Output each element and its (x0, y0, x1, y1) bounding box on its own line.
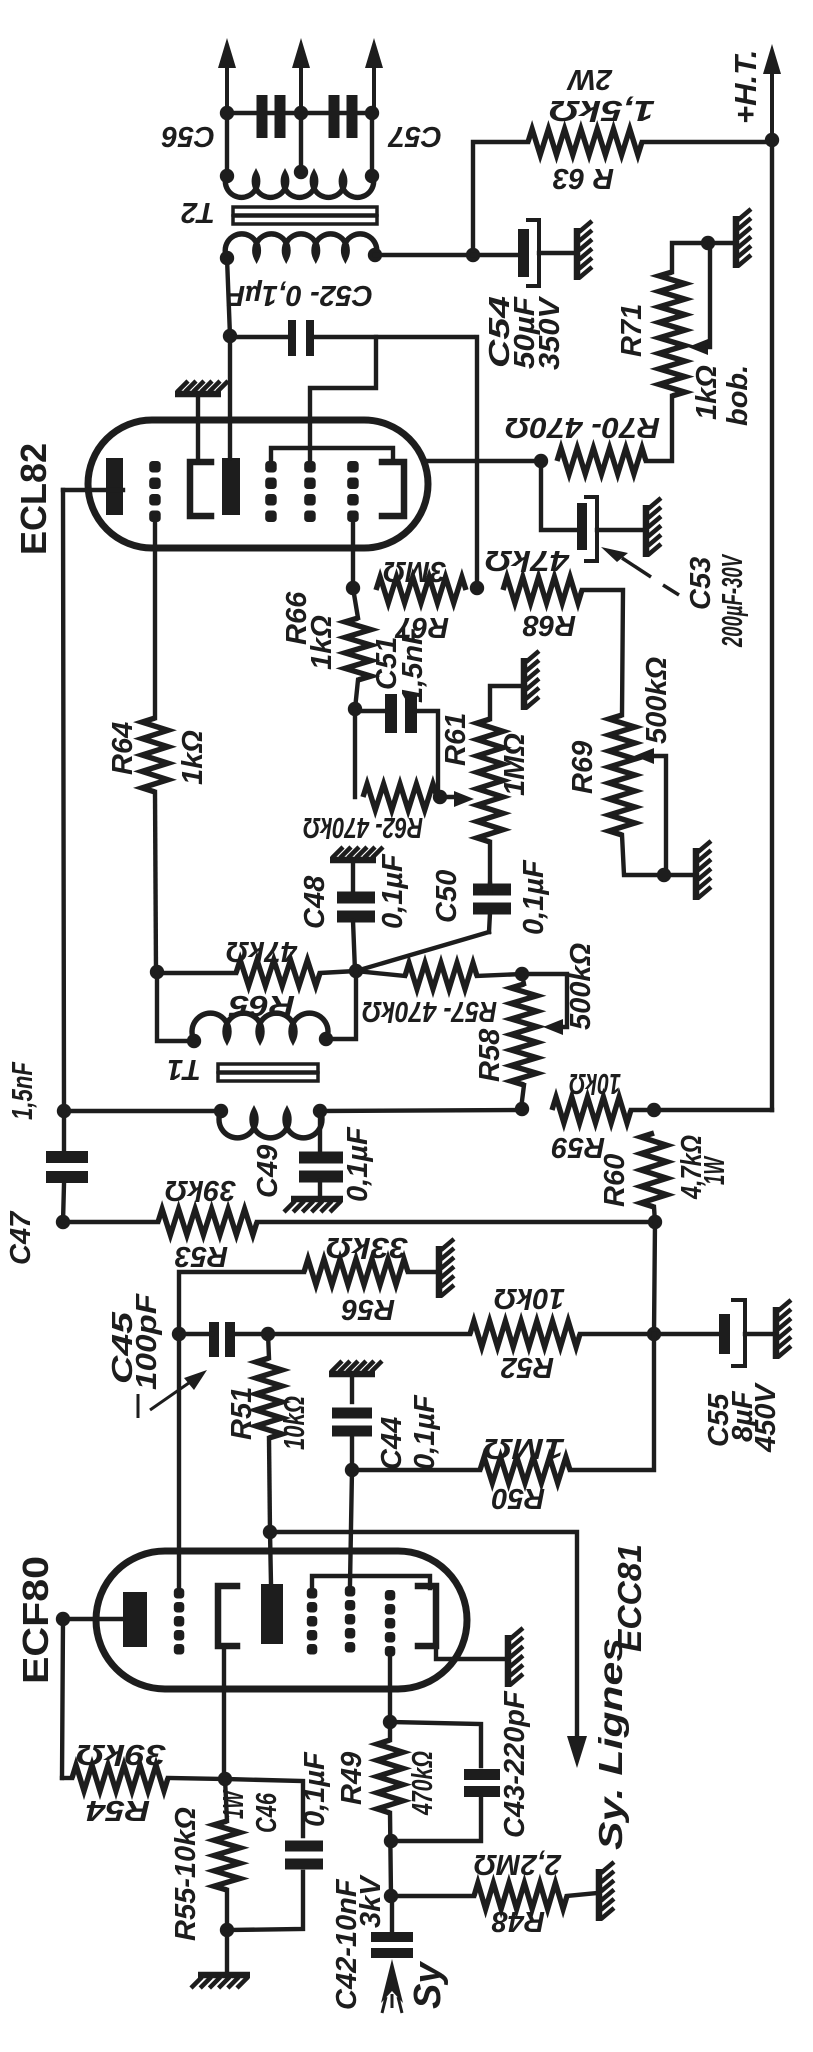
wire anode1 left (63, 1617, 123, 1621)
label C44 (376, 1417, 408, 1470)
wire pentode g1 down (351, 515, 355, 588)
ECF80 g2 (345, 1586, 356, 1653)
node B+ feed (466, 248, 480, 262)
svg-text:R60: R60 (599, 1154, 631, 1207)
transformer T1 bottom winding (219, 1111, 322, 1138)
node sec winding tap (294, 165, 308, 179)
transformer T1 core (218, 1064, 318, 1081)
label R52 (501, 1351, 554, 1383)
label 200uF-30V (717, 553, 749, 647)
wire R62 left leg (353, 709, 357, 797)
node T1 bot right (313, 1104, 327, 1118)
ground C44 (329, 1361, 382, 1374)
wire A down to T1 (326, 971, 356, 1039)
wire HT line mid (320, 1110, 522, 1111)
resistor R63 (528, 129, 642, 155)
label C50 (431, 870, 463, 923)
ground C55 (776, 1300, 791, 1359)
node T2 sec left (220, 106, 234, 120)
svg-text:39kΩ: 39kΩ (165, 1174, 236, 1206)
svg-text:R48: R48 (491, 1905, 545, 1937)
svg-text:ECC81: ECC81 (611, 1544, 648, 1652)
tap R69 (634, 748, 666, 875)
label R66 (281, 591, 313, 645)
svg-text:0,1µF: 0,1µF (299, 1751, 331, 1827)
label 1,5nF C47 (7, 1061, 39, 1120)
label R48 (491, 1905, 545, 1937)
svg-text:T1: T1 (167, 1053, 201, 1085)
label 4,7k (676, 1135, 708, 1200)
label 8uF (727, 1390, 759, 1442)
wire R65 right to A (320, 971, 356, 973)
label 1,5nF (397, 626, 429, 703)
svg-text:Sy: Sy (407, 1961, 449, 2009)
resistor R52 (470, 1321, 580, 1347)
svg-text:R55-10kΩ: R55-10kΩ (170, 1807, 202, 1941)
node R55 bottom (220, 1923, 234, 1937)
wire R50 right (570, 1334, 654, 1470)
label C42-10nF (331, 1878, 363, 2010)
svg-text:39kΩ: 39kΩ (76, 1738, 166, 1770)
label R69 (567, 741, 599, 794)
svg-text:200µF-30V: 200µF-30V (717, 553, 749, 647)
label R60 (599, 1154, 631, 1207)
wire R61 top to ground (490, 686, 522, 719)
label 1k bob (691, 365, 754, 426)
label R64 (107, 722, 139, 775)
node A junction (349, 964, 363, 978)
ground R55 (191, 1975, 250, 1988)
wire R60 node down (654, 1222, 655, 1334)
label C53 (685, 557, 717, 610)
wire B+ rail down (475, 337, 479, 588)
ECL82 pentode anode (222, 458, 240, 515)
ECF80 g3 (307, 1588, 318, 1655)
svg-text:C50: C50 (431, 870, 463, 923)
svg-text:C49: C49 (252, 1145, 284, 1198)
node R64-R65 (150, 965, 164, 979)
label ECL82 (13, 443, 54, 555)
label 450V (750, 1382, 782, 1453)
svg-text:1kΩ: 1kΩ (306, 615, 338, 670)
wire R59 to rail (631, 1108, 772, 1112)
label R50 (492, 1482, 545, 1514)
label R71 (616, 304, 648, 357)
capacitor C50 (473, 884, 511, 933)
svg-text:350V: 350V (534, 295, 566, 370)
capacitor C44 (332, 1374, 372, 1470)
wire sync out (270, 1532, 577, 1738)
svg-text:33kΩ: 33kΩ (326, 1231, 408, 1263)
label C51 (371, 637, 403, 690)
svg-text:C57: C57 (387, 120, 442, 152)
node R60 top (647, 1103, 661, 1117)
label 350V (534, 295, 566, 370)
label C56 (161, 120, 215, 152)
tap R71 (688, 243, 710, 355)
wire secondary top line with output taps (227, 113, 372, 176)
wire g2 down (350, 1470, 352, 1584)
label R57-470k (362, 995, 497, 1027)
resistor R68 (503, 577, 582, 603)
ECF80 grid 1 (174, 1588, 185, 1655)
label Sy (407, 1961, 449, 2009)
node C45 right (261, 1327, 275, 1341)
svg-text:R69: R69 (567, 741, 599, 794)
ECL82 g3-cathode tie (271, 448, 393, 461)
node sec winding left (220, 169, 234, 183)
node R69 gnd (657, 868, 671, 882)
svg-text:10kΩ: 10kΩ (494, 1282, 565, 1314)
svg-text:bob.: bob. (722, 365, 754, 426)
svg-text:R62- 470kΩ: R62- 470kΩ (303, 811, 423, 843)
label 10k R51 (279, 1396, 311, 1450)
wire R70 to R71 (646, 396, 672, 461)
label C55 (703, 1393, 735, 1447)
svg-text:R 63: R 63 (553, 162, 614, 194)
svg-text:R53: R53 (175, 1240, 228, 1272)
resistor R56 (304, 1259, 408, 1285)
output arrow left (218, 38, 236, 113)
node anode2 (263, 1525, 277, 1539)
wire C43 branch (390, 1722, 481, 1766)
ground ECL82 cathode (175, 381, 228, 394)
ECF80 cathode 1 (218, 1586, 237, 1646)
label R55-10k (170, 1807, 202, 1941)
resistor R50 (480, 1457, 570, 1483)
wire R64-R65 corner (156, 971, 236, 975)
svg-text:0,1µF: 0,1µF (342, 1126, 374, 1202)
label T2 (181, 196, 215, 228)
wire R71 top to ground (672, 243, 734, 272)
resistor R59 (552, 1097, 631, 1123)
label C47 (5, 1210, 37, 1265)
wire prim right to B+ node (375, 253, 473, 257)
label 0,1uF C46 (299, 1751, 331, 1827)
ECL82 triode cathode (190, 462, 211, 516)
wire triode anode left (63, 488, 123, 492)
wire R49 top (388, 1722, 392, 1740)
ground R48 (599, 1862, 614, 1921)
node g1 bottom (383, 1715, 397, 1729)
resistor R70 (557, 448, 646, 474)
svg-text:0,1µF: 0,1µF (518, 859, 550, 935)
wire R51 top (268, 1334, 269, 1358)
capacitor C57 (329, 95, 358, 138)
capacitor C43 (391, 1769, 500, 1841)
svg-text:C56: C56 (161, 120, 215, 152)
ground C48 (330, 847, 383, 860)
ground C49 (284, 1199, 343, 1212)
svg-text:47kΩ: 47kΩ (485, 544, 571, 576)
ECF80 g1 (385, 1590, 396, 1657)
ECF80 anode 1 (123, 1592, 147, 1647)
node R52 right (647, 1327, 661, 1341)
label 1,5k (549, 94, 655, 126)
ECL82 pentode cathode (382, 462, 404, 516)
label C49 (252, 1145, 284, 1198)
node cathode (534, 454, 548, 468)
svg-text:R54: R54 (86, 1794, 150, 1826)
power rail +H.T. (763, 44, 781, 1110)
label R59 (552, 1131, 605, 1163)
svg-text:C53: C53 (685, 557, 717, 610)
svg-text:R51: R51 (226, 1387, 258, 1440)
ground R71 (736, 209, 751, 268)
label C54 (484, 296, 516, 368)
svg-text:C43-220pF: C43-220pF (499, 1690, 531, 1838)
wire R58 bottom (521, 1085, 524, 1109)
svg-text:R59: R59 (552, 1131, 605, 1163)
label 50uF (509, 296, 541, 369)
label 2,2M (474, 1848, 562, 1880)
wire R55 bottom (225, 1890, 229, 1973)
svg-text:500kΩ: 500kΩ (641, 656, 673, 744)
label +H.T. (728, 50, 763, 124)
svg-text:T2: T2 (181, 196, 215, 228)
capacitor C47 (46, 490, 88, 1222)
label C45 (107, 1311, 139, 1384)
wire to R48 (391, 1894, 474, 1898)
node R71 top (701, 236, 715, 250)
transformer T1 top winding (192, 1013, 328, 1040)
wire pentode cathode (428, 459, 541, 463)
label 500k R58 (565, 942, 597, 1030)
label 10k R59 (569, 1067, 621, 1099)
node C45 left (172, 1327, 186, 1341)
node R57 right (515, 967, 529, 981)
capacitor C53 (577, 497, 644, 561)
resistor R61 (477, 719, 503, 842)
svg-text:1kΩ: 1kΩ (691, 365, 723, 420)
ground R56 (439, 1239, 454, 1298)
wire R56 left (179, 1272, 304, 1334)
node R60 bot (648, 1215, 662, 1229)
svg-text:0,1µF: 0,1µF (377, 853, 409, 929)
wire R57 right corner (477, 974, 522, 976)
svg-text:1,5nF: 1,5nF (7, 1061, 39, 1120)
label Sy Lignes (592, 1638, 629, 1850)
svg-text:1W: 1W (218, 1789, 250, 1819)
label R70-470 (505, 411, 660, 443)
wire anode2 up (270, 1532, 271, 1584)
label T1 (167, 1053, 201, 1085)
label R65 (228, 989, 295, 1021)
label ECC81 (611, 1544, 648, 1652)
label 1k R64 (177, 730, 209, 785)
node prim right (368, 248, 382, 262)
resistor R49 (377, 1740, 403, 1813)
wire screen jog (310, 337, 376, 461)
label 3kV (355, 1874, 387, 1928)
node C44 bottom (345, 1463, 359, 1477)
label R68 (522, 609, 576, 641)
leader C45 (138, 1370, 207, 1418)
label 10k R52 (494, 1282, 565, 1314)
wire cathode to C53 (541, 461, 578, 530)
label C57 (387, 120, 442, 152)
node T1 top right (319, 1032, 333, 1046)
node R62 right (433, 790, 447, 804)
svg-text:1kΩ: 1kΩ (177, 730, 209, 785)
ECL82 pentode g3 (265, 461, 277, 522)
output arrow center (292, 38, 310, 113)
node sync in (384, 1889, 398, 1903)
label R67 (394, 611, 449, 643)
label 47k R68 (485, 544, 571, 576)
wire R69 bottom (622, 835, 694, 875)
resistor R57 (405, 963, 477, 989)
label R54 (86, 1794, 150, 1826)
wire R64 bottom (155, 792, 156, 973)
wire cathode to ground (196, 397, 200, 462)
wire grid line down (177, 1334, 181, 1587)
node R66 bottom (348, 702, 362, 716)
node R59 left (515, 1102, 529, 1116)
capacitor C42 (371, 1896, 413, 1958)
wire triode grid down (153, 515, 157, 718)
capacitor C52 (230, 320, 473, 356)
svg-text:ECL82: ECL82 (13, 443, 54, 555)
capacitor C56 (257, 95, 286, 138)
svg-text:Sy. Lignes: Sy. Lignes (592, 1638, 629, 1850)
tap R61 (440, 791, 474, 807)
wire R60 bottom (654, 1207, 655, 1222)
svg-text:R70- 470Ω: R70- 470Ω (505, 411, 660, 443)
label 33k (326, 1231, 408, 1263)
label 1M (499, 733, 531, 796)
wire R56 right (408, 1270, 437, 1274)
ECL82 pentode g1 (347, 461, 359, 522)
wire B+ node up to R63 (473, 142, 528, 255)
svg-text:470kΩ: 470kΩ (407, 1751, 439, 1816)
label C52-0,1uF (226, 279, 373, 311)
wire T2 prim left down (227, 258, 230, 336)
svg-text:2W: 2W (566, 63, 613, 95)
label 500k R69 (641, 656, 673, 744)
svg-text:R56: R56 (341, 1293, 395, 1325)
resistor R66 (345, 618, 371, 680)
wire R58 top (522, 974, 524, 984)
wire R52 right (580, 1332, 654, 1336)
ECF80 anode 2 (261, 1584, 283, 1644)
label C43-220pF (499, 1690, 531, 1838)
wire C45 to R52 (268, 1332, 470, 1336)
wire C47 to R53 (63, 1220, 158, 1224)
label 1k R66 (306, 615, 338, 670)
wire C44 to R50 (352, 1468, 480, 1472)
resistor R65 (236, 960, 320, 986)
wire HT line left (64, 1109, 221, 1113)
wire R66 top (353, 588, 358, 618)
svg-text:1MΩ: 1MΩ (499, 733, 531, 796)
capacitor C55 (654, 1300, 774, 1366)
ECL82 triode anode (106, 458, 123, 515)
capacitor C49 (299, 1111, 343, 1199)
arrow Sy input (381, 1959, 403, 2013)
svg-text:1MΩ: 1MΩ (483, 1432, 565, 1464)
wire R48 right (567, 1893, 597, 1896)
ground C54 (577, 221, 592, 280)
ECL82 triode grid (149, 461, 161, 522)
label 2W (566, 63, 613, 95)
svg-text:1,5nF: 1,5nF (397, 626, 429, 703)
svg-text:C47: C47 (5, 1210, 37, 1265)
svg-text:C46: C46 (251, 1792, 283, 1833)
tube ECF80 envelope (96, 1551, 467, 1689)
svg-text:R58: R58 (474, 1028, 506, 1082)
svg-text:R52: R52 (501, 1351, 554, 1383)
resistor R58 (511, 984, 537, 1085)
label R49 (336, 1752, 368, 1805)
label 47k R65 (226, 935, 298, 967)
wire g1 down (388, 1651, 392, 1722)
node R67-R68 (470, 581, 484, 595)
svg-text:R64: R64 (107, 722, 139, 775)
node C43 bottom (384, 1834, 398, 1848)
wire left line to R54 (62, 1619, 63, 1778)
label 0,1uF C44 (409, 1394, 441, 1470)
node cathode1 (218, 1772, 232, 1786)
wire R66 bottom (355, 680, 358, 709)
leader C53 (601, 547, 679, 595)
resistor R55 (214, 1821, 240, 1890)
svg-text:1W: 1W (699, 1155, 731, 1185)
capacitor C54 (518, 220, 575, 286)
label 1M R50 (483, 1432, 565, 1464)
ground ECF80 cathode (508, 1628, 523, 1687)
label 3M (383, 555, 446, 587)
svg-text:450V: 450V (750, 1382, 782, 1453)
node sec winding right (365, 169, 379, 183)
wire C50 diagonal (356, 932, 489, 971)
node T1 top left (187, 1034, 201, 1048)
svg-text:R61: R61 (440, 713, 472, 766)
resistor R62 (363, 784, 437, 810)
svg-text:500kΩ: 500kΩ (565, 942, 597, 1030)
transformer T2 primary winding (225, 234, 377, 258)
svg-text:3kV: 3kV (355, 1874, 387, 1928)
label R62-470k (303, 811, 423, 843)
svg-text:100pF: 100pF (131, 1293, 163, 1390)
wire R49 bottom (390, 1813, 391, 1896)
tap R58 (522, 974, 567, 1035)
label 470k R49 (407, 1751, 439, 1816)
wire cathode1 down (222, 1646, 226, 1779)
label 0,1uF C49 (342, 1126, 374, 1202)
transformer T2 core (233, 207, 377, 224)
svg-text:R50: R50 (492, 1482, 545, 1514)
wire pentode anode up (228, 336, 232, 458)
resistor R51 (256, 1358, 282, 1438)
svg-text:R49: R49 (336, 1752, 368, 1805)
wire R63 to rail (642, 140, 772, 144)
ECL82 pentode g2 (304, 461, 316, 522)
node T2 sec right (365, 106, 379, 120)
wire R61 bottom to C50 (488, 842, 492, 884)
capacitor C45 (179, 1322, 268, 1357)
node HT (765, 133, 779, 147)
wire T1 left leg (157, 972, 194, 1041)
node HT line left (57, 1104, 71, 1118)
label ECF80 (15, 1556, 56, 1684)
svg-text:C52- 0,1µF: C52- 0,1µF (226, 279, 373, 311)
label 1W R60 (699, 1155, 731, 1185)
svg-text:R71: R71 (616, 304, 648, 357)
wire cathode2 right (436, 1646, 506, 1659)
label R58 (474, 1028, 506, 1082)
svg-text:10kΩ: 10kΩ (569, 1067, 621, 1099)
